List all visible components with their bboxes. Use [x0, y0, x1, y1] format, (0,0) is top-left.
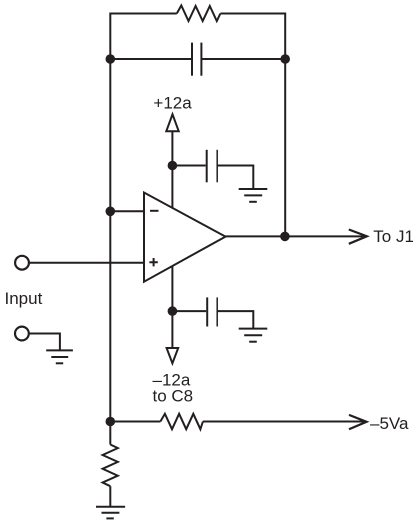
wire -12a supply: [171, 260, 173, 348]
ground lower bypass: [239, 329, 268, 342]
svg-text:To J1: To J1: [373, 227, 413, 246]
capacitor C3 bypass lower left plate: [206, 297, 208, 326]
arrowhead To J1: [349, 230, 367, 244]
node dot cap line left: [106, 54, 116, 64]
wire to R3: [109, 422, 111, 445]
op-amp plus marker: [149, 258, 157, 266]
wire bottom row left: [110, 421, 160, 423]
svg-text:+12a: +12a: [153, 94, 192, 113]
node dot cap line right: [280, 54, 290, 64]
resistor R1 feedback: [177, 6, 221, 22]
node dot -12a tap: [168, 306, 178, 316]
wire +12a supply: [171, 131, 173, 212]
arrowhead -5Va: [349, 415, 367, 429]
wire left rail with top-left lead: [110, 14, 177, 422]
wire bypass upper right: [217, 166, 253, 190]
ground input: [46, 350, 73, 363]
op-amp minus marker: [150, 210, 159, 212]
node dot +12a tap: [168, 161, 178, 171]
node dot inverting input: [106, 207, 116, 217]
wire R3 to ground: [109, 486, 111, 507]
wire bottom row right: [203, 421, 365, 423]
terminal input ground circle: [15, 327, 29, 341]
capacitor C2 bypass upper left plate: [206, 150, 208, 183]
power arrow up +12a: [166, 114, 178, 131]
wire cap feedback left: [110, 58, 192, 60]
wire input ground: [29, 334, 60, 351]
capacitor C2 bypass upper right plate: [216, 150, 218, 183]
wire right rail with top-right lead: [220, 14, 285, 237]
resistor R3 vertical: [103, 445, 118, 487]
wire bypass upper left: [172, 165, 205, 167]
ground bottom: [96, 507, 125, 519]
node dot output tap: [280, 232, 290, 242]
svg-text:to C8: to C8: [153, 387, 194, 406]
wire bypass lower left: [172, 310, 206, 312]
svg-text:Input: Input: [5, 289, 43, 308]
wire cap feedback right: [201, 58, 285, 60]
resistor R2 to -5Va: [160, 414, 203, 429]
capacitor C1 feedback left plate: [191, 43, 193, 76]
terminal input circle: [15, 256, 29, 270]
ground upper bypass: [239, 189, 268, 202]
op-amp U1: [144, 193, 226, 282]
svg-text:–5Va: –5Va: [370, 414, 409, 433]
capacitor C1 feedback right plate: [200, 43, 202, 76]
wire output: [226, 235, 366, 237]
power arrow down -12a: [167, 348, 179, 363]
capacitor C3 bypass lower right plate: [216, 297, 218, 326]
node dot bottom left: [106, 417, 116, 427]
wire bypass lower right: [217, 311, 253, 328]
wire inverting input: [110, 210, 144, 212]
wire noninverting input: [30, 262, 145, 264]
